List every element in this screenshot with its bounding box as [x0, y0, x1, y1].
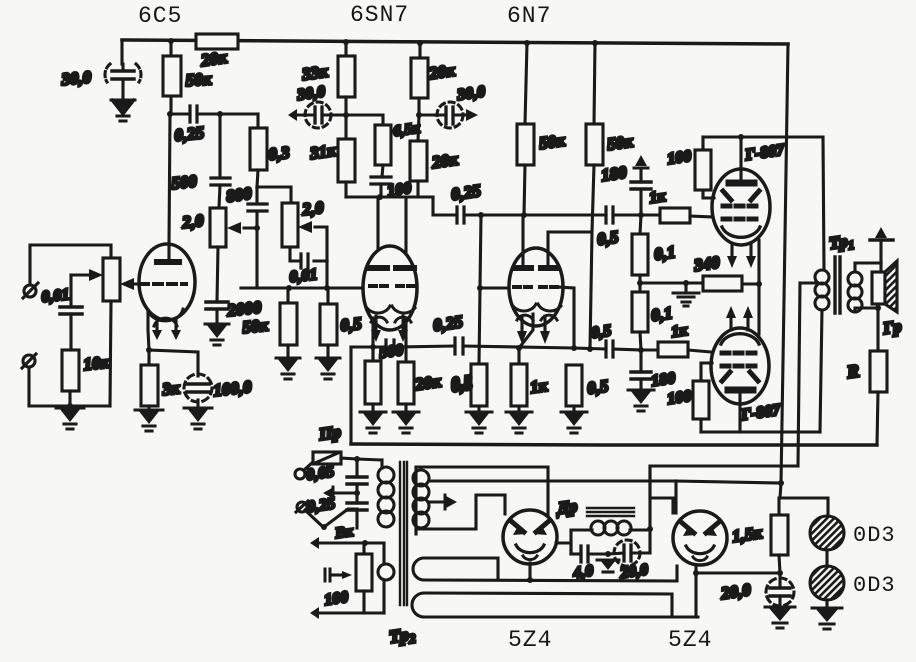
wire top B+ rail	[122, 40, 788, 44]
resistor 10к	[62, 350, 79, 391]
svg-text:0,01: 0,01	[41, 286, 71, 306]
capacitor 0,25 lower coupling	[455, 338, 463, 354]
wire to 500 cap	[218, 114, 221, 178]
svg-text:30,0: 30,0	[60, 67, 93, 89]
mains terminal 2	[297, 502, 307, 512]
svg-text:6N7: 6N7	[507, 3, 551, 29]
resistor 0,5	[326, 288, 329, 304]
input terminal 1	[24, 285, 36, 297]
capacitor 180 lower	[639, 350, 642, 372]
svg-text:0,5: 0,5	[586, 376, 610, 398]
wire 6C5 grid to pot	[131, 282, 146, 285]
heater arrow symbol	[331, 573, 342, 576]
resistor 100 screen lower	[701, 363, 712, 381]
wire divider mid to 340	[640, 281, 703, 284]
svg-text:20к: 20к	[199, 48, 228, 71]
svg-text:1к: 1к	[529, 376, 549, 397]
resistor 6,5к	[346, 115, 383, 125]
wiper arrow of 2,0	[244, 226, 258, 229]
wire between regulators	[825, 550, 828, 566]
svg-text:0,25: 0,25	[173, 123, 205, 145]
switch Вк	[305, 510, 322, 526]
svg-text:180: 180	[650, 370, 676, 390]
svg-text:5Z4: 5Z4	[508, 627, 552, 653]
svg-text:100: 100	[666, 148, 692, 168]
svg-text:500: 500	[170, 171, 198, 193]
node grid1	[477, 285, 483, 291]
resistor 50к plate 2	[594, 43, 595, 124]
resistor 20к lower	[418, 115, 419, 141]
svg-text:Др: Др	[554, 496, 579, 518]
gas regulator 0D3 second	[810, 566, 844, 600]
wire plate line to primary	[823, 137, 824, 270]
resistor 340 cathode bias	[703, 276, 742, 291]
ground	[628, 390, 654, 411]
arrow tap mid caps	[333, 491, 357, 494]
node grid tap	[478, 212, 484, 218]
capacitor 20,0 electrolytic	[608, 540, 650, 566]
resistor 0,3	[250, 128, 267, 170]
wire 0,25 to 0,3	[256, 114, 259, 128]
capacitor 2000	[206, 302, 228, 309]
capacitor 0,5 upper	[606, 207, 613, 223]
wire plate 1 lead	[376, 197, 379, 264]
wire grid leak 6N7	[479, 215, 481, 364]
svg-text:Пр: Пр	[317, 422, 342, 444]
wiper arrow input pot	[71, 273, 88, 276]
resistor 1к lower grid stopper	[658, 342, 688, 357]
node top cap	[738, 134, 744, 140]
wire 5Z4-2 bottom	[694, 565, 697, 617]
potentiometer 2,0 (first)	[210, 208, 226, 247]
svg-text:0D3: 0D3	[853, 523, 896, 548]
resistor 33к	[344, 42, 347, 56]
node speaker bottom	[875, 305, 881, 311]
ground	[205, 324, 229, 345]
resistor 1к grid stopper	[660, 208, 690, 223]
svg-text:340: 340	[692, 253, 721, 276]
chassis symbol up	[879, 240, 882, 263]
wire screen feed line	[676, 481, 781, 483]
capacitor 500 feedback	[386, 340, 394, 354]
svg-text:10к: 10к	[82, 352, 110, 374]
node plate2 drop	[587, 346, 593, 352]
wire plate2 to lower channel	[548, 232, 592, 349]
primary winding Тр1	[815, 270, 829, 310]
heater arrows 6SN7	[376, 316, 403, 330]
wire node to pot 2	[257, 187, 291, 203]
wire grid2 to leak	[558, 287, 574, 348]
ground	[597, 560, 619, 572]
ground	[466, 412, 492, 433]
svg-text:50к: 50к	[241, 315, 269, 337]
resistor 100 hum	[362, 543, 365, 554]
svg-text:50к: 50к	[538, 131, 566, 153]
wire B+ rail drop	[780, 44, 788, 498]
wire 5Z4 cathode to filter	[556, 543, 571, 554]
node 20,0	[777, 570, 783, 576]
capacitor 0,25 line filter	[355, 484, 358, 503]
svg-text:0,5: 0,5	[596, 227, 620, 249]
resistor 0,5 grid leak 1	[471, 364, 487, 406]
HV secondary winding Тр2	[414, 467, 417, 534]
wire B+ to OPT centre tap	[650, 466, 797, 553]
node top rail / 50k	[168, 38, 174, 44]
resistor 100 screen	[701, 137, 704, 150]
svg-text:Вк: Вк	[333, 524, 354, 542]
capacitor 800	[248, 204, 267, 211]
svg-text:100,0: 100,0	[212, 377, 253, 400]
wire input ground bus	[29, 367, 110, 406]
node divider mid	[637, 280, 643, 286]
svg-text:4,0: 4,0	[571, 562, 594, 582]
resistor 50к (grid leak)	[286, 288, 289, 303]
node 180 lower	[638, 347, 644, 353]
ground	[506, 412, 532, 433]
capacitor 0,5 lower	[606, 341, 613, 357]
potentiometer input volume	[103, 258, 120, 301]
potentiometer 2,0 (second)	[282, 203, 298, 247]
wire plate node down to 6C5	[169, 114, 170, 245]
wiper arrow of 2,0 second	[315, 227, 327, 261]
node rail 50к-1	[524, 40, 530, 46]
svg-text:50к: 50к	[185, 69, 212, 90]
svg-text:33к: 33к	[300, 62, 329, 85]
svg-text:180: 180	[600, 163, 628, 185]
wire primary centre tap	[798, 283, 815, 466]
capacitor 500	[211, 178, 230, 185]
node 800/wiper	[254, 225, 260, 231]
capacitor 0,01 (tone)	[290, 247, 327, 261]
node 33к/30,0	[343, 112, 349, 118]
ground	[360, 412, 386, 433]
ground	[316, 358, 340, 379]
wire plate top line	[703, 135, 823, 138]
ground	[276, 358, 300, 379]
wire grid bus 6SN7	[241, 286, 365, 289]
wire lower grid line	[351, 346, 658, 350]
double triode 6N7	[509, 248, 563, 326]
svg-text:Гр: Гр	[881, 317, 903, 339]
capacitor 0,01 input	[69, 275, 72, 307]
capacitor 30,0 electrolytic horizontal	[288, 102, 346, 128]
wire left drop to filter cap	[120, 40, 123, 64]
wire feedback bottom line	[351, 444, 877, 445]
svg-text:1к: 1к	[670, 322, 689, 341]
wire cathode to 1к	[519, 314, 533, 364]
resistor 0,1 lower	[638, 283, 641, 292]
ground	[561, 412, 587, 433]
svg-text:5Z4: 5Z4	[668, 627, 712, 653]
wire primary bottom to lower plate	[820, 310, 822, 432]
resistor 31к	[344, 115, 347, 139]
svg-text:3к: 3к	[160, 378, 180, 399]
svg-text:0,01: 0,01	[289, 266, 319, 286]
node rail 33к	[343, 39, 349, 45]
svg-text:500: 500	[378, 342, 404, 362]
svg-text:20к: 20к	[427, 61, 456, 84]
svg-text:2,0: 2,0	[300, 198, 325, 219]
resistor R feedback	[876, 308, 879, 351]
node 0,5 top	[324, 285, 330, 291]
wire fuse to transformer	[341, 458, 382, 460]
resistor 0,5 cathode	[398, 362, 414, 404]
node 180 upper	[638, 212, 644, 218]
svg-text:6C5: 6C5	[138, 3, 182, 29]
svg-text:6SN7: 6SN7	[350, 2, 409, 28]
svg-text:0,1: 0,1	[653, 242, 677, 264]
wire bottom tap line	[320, 611, 384, 614]
svg-text:0,1: 0,1	[650, 303, 674, 325]
wire 6C5 cathode	[148, 310, 149, 350]
ground	[184, 408, 212, 429]
node filter ground	[605, 551, 611, 557]
ground	[111, 100, 135, 121]
svg-text:100: 100	[666, 388, 692, 408]
node ground tap	[683, 280, 689, 286]
secondary winding Тр1	[848, 272, 862, 312]
capacitor 0,05 line filter	[355, 459, 358, 477]
HV centre tap arrow	[429, 500, 444, 503]
wire plate1 lead	[521, 215, 524, 265]
wire plate bottom line	[701, 430, 820, 433]
wire secondary top	[855, 263, 881, 272]
capacitor 0,25 coupling	[170, 112, 258, 115]
wire output to 1,5к	[696, 571, 780, 574]
svg-text:20к: 20к	[413, 372, 442, 395]
resistor 50к plate 1	[525, 43, 527, 124]
svg-text:31к: 31к	[308, 141, 337, 164]
ground	[56, 408, 84, 429]
node 20к/30,0	[416, 112, 422, 118]
ground	[393, 412, 419, 433]
wire plate node bus 6SN7	[346, 195, 433, 198]
node grid2 mix	[571, 345, 577, 351]
resistor 20к horizontal (decoupling)	[196, 34, 238, 49]
wire HV tap to second rectifier	[429, 479, 676, 482]
capacitor 100	[382, 165, 383, 177]
node cathode	[146, 347, 152, 353]
capacitor 4,0	[571, 552, 581, 555]
double triode 6SN7	[363, 246, 417, 330]
svg-text:0,3: 0,3	[267, 143, 291, 164]
wire cathode 2 to 0,5	[404, 318, 407, 362]
svg-text:R: R	[845, 360, 861, 382]
node 10к bottom	[67, 403, 73, 409]
capacitor 20,0 output electrolytic	[766, 573, 794, 607]
node 20к top	[370, 344, 376, 350]
svg-text:1к: 1к	[648, 188, 667, 207]
resistor 20к upper	[418, 43, 421, 58]
input terminal 2	[23, 355, 35, 367]
ground	[673, 283, 699, 306]
svg-text:20к: 20к	[430, 150, 459, 173]
resistor 1,5к	[780, 498, 828, 516]
wire regulator to ground	[825, 600, 828, 608]
wire plate1 line	[524, 213, 660, 216]
filament winding leads	[424, 558, 498, 580]
svg-text:2,0: 2,0	[180, 211, 205, 232]
ground	[812, 608, 842, 629]
resistor 20к cathode	[365, 361, 381, 404]
heater arrows upper Г-807	[732, 244, 751, 256]
svg-text:0,5: 0,5	[450, 374, 474, 396]
wire heater tap line	[320, 541, 384, 544]
core Тр1	[835, 257, 840, 313]
capacitor 30,0 electrolytic second	[419, 102, 478, 128]
triode 6C5	[139, 244, 195, 326]
svg-text:50к: 50к	[606, 132, 634, 154]
capacitor 180 upper	[639, 190, 642, 215]
heater arrows lower Г-807	[731, 318, 748, 330]
resistor 50к (plate load 6C5)	[169, 41, 172, 114]
wire HV bottom to 5Z4 left plate	[416, 495, 505, 534]
node rail 20к	[417, 40, 423, 46]
node plate 1	[521, 212, 527, 218]
resistor 3к	[147, 350, 150, 365]
heater arrows 6C5	[157, 318, 176, 330]
node cathode	[516, 345, 522, 351]
ground	[135, 410, 163, 431]
wire plate 2 lead	[404, 197, 407, 264]
capacitor 30,0 electrolytic	[105, 64, 141, 97]
node 6C5 plate	[167, 111, 173, 117]
heater arrows 6N7	[522, 316, 545, 331]
arrow up symbol	[634, 167, 648, 170]
fuse Пр	[295, 469, 305, 479]
wire cathode 1 to 20к	[371, 318, 374, 361]
primary winding Тр2	[382, 543, 385, 563]
resistor 1к cathode	[511, 364, 527, 406]
wire cathodes common	[757, 240, 760, 334]
node rail 50к-2	[592, 40, 598, 46]
svg-text:0,5: 0,5	[339, 314, 363, 335]
node 500 tap	[217, 111, 223, 117]
core Тр2	[400, 462, 407, 605]
loudspeaker Гр	[855, 261, 897, 312]
choke Др	[571, 530, 592, 554]
svg-text:0D3: 0D3	[853, 573, 896, 598]
resistor 0,1 upper	[640, 215, 641, 234]
ground	[765, 607, 795, 628]
svg-text:0,5: 0,5	[590, 322, 612, 342]
svg-text:100: 100	[323, 589, 349, 609]
node cathode junction	[756, 281, 762, 287]
capacitor 100,0 electrolytic	[184, 374, 212, 408]
gas regulator 0D3 first	[810, 516, 844, 550]
node 50к top	[286, 285, 292, 291]
wire HV top to 5Z4 right plate	[416, 467, 548, 519]
node choke out	[647, 526, 653, 532]
svg-text:800: 800	[225, 184, 253, 206]
capacitor 0,25 coupling to 6N7	[433, 197, 457, 215]
resistor 0,5 grid leak 2	[566, 365, 582, 406]
wire feedback box left edge	[349, 347, 352, 444]
wire rectified to box	[650, 466, 673, 513]
